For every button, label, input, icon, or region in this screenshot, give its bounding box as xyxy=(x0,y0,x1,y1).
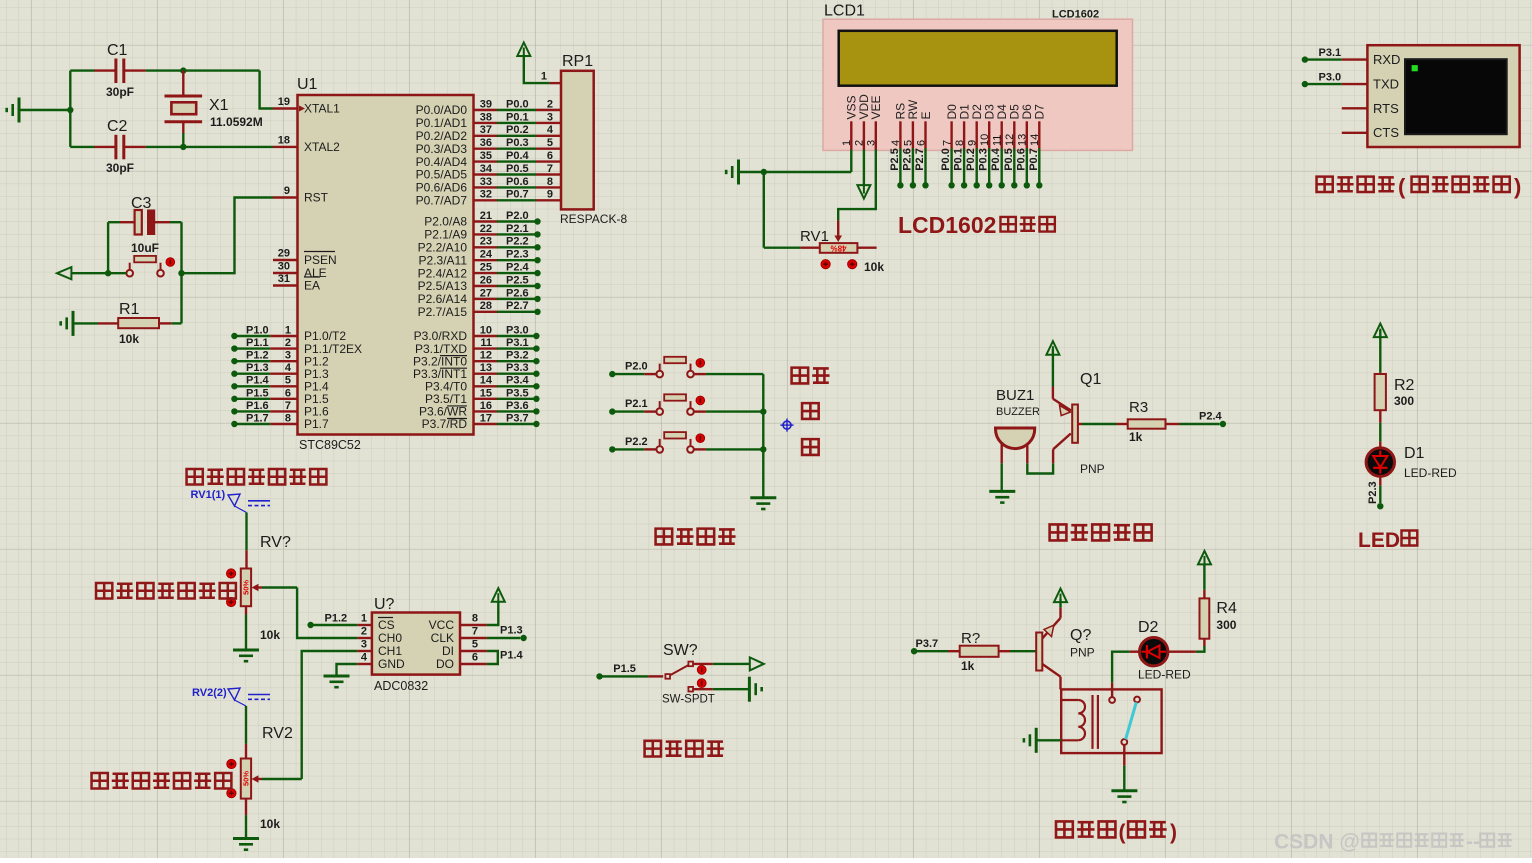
svg-text:1: 1 xyxy=(541,71,547,83)
svg-text:P1.2: P1.2 xyxy=(325,613,348,625)
svg-text:P2.7/A15: P2.7/A15 xyxy=(418,305,468,319)
wire Q? collector to relay xyxy=(1059,677,1061,690)
buzzer BUZ1 xyxy=(996,387,1041,449)
svg-text:P1.6: P1.6 xyxy=(246,400,269,412)
wire D1 to P2.3 xyxy=(1379,476,1381,503)
svg-text:P2.2: P2.2 xyxy=(506,236,529,248)
svg-text:24: 24 xyxy=(480,249,493,261)
svg-text:P0.6: P0.6 xyxy=(1015,148,1027,171)
U1 pin P3.2 (12) with net label xyxy=(413,350,540,369)
svg-text:P0.6: P0.6 xyxy=(506,176,529,188)
button P2.2 xyxy=(612,432,763,453)
svg-text:P2.3: P2.3 xyxy=(506,249,529,261)
ground (buzzer) xyxy=(989,491,1015,502)
svg-text:P1.0: P1.0 xyxy=(246,324,269,336)
svg-text:RV?: RV? xyxy=(260,534,291,551)
svg-text:7: 7 xyxy=(472,626,478,638)
U1 pin P2.6 (27) with net label xyxy=(418,287,541,306)
svg-text:35: 35 xyxy=(480,150,492,162)
svg-text:): ) xyxy=(1170,821,1177,844)
LCD1 pin 4 RS xyxy=(889,103,908,189)
svg-text:9: 9 xyxy=(284,185,290,197)
svg-text:P0.3: P0.3 xyxy=(978,148,990,171)
resistor R4 xyxy=(1200,598,1237,638)
node reset left xyxy=(105,270,111,276)
svg-text:P0.3/AD3: P0.3/AD3 xyxy=(416,142,468,156)
origin marker (blue) xyxy=(780,419,793,432)
LCD1 pin 3 VEE xyxy=(866,95,884,149)
svg-text:P2.7: P2.7 xyxy=(506,300,529,312)
svg-text:50%: 50% xyxy=(242,771,251,786)
svg-text:P2.7: P2.7 xyxy=(914,148,926,171)
U1 pin RST 9 xyxy=(273,185,329,205)
svg-text:DI: DI xyxy=(442,644,454,658)
svg-text:1: 1 xyxy=(285,324,291,336)
svg-text:U1: U1 xyxy=(297,76,318,93)
label jian xyxy=(802,439,819,455)
wire VSS to ground xyxy=(739,150,852,173)
svg-text:26: 26 xyxy=(480,274,492,286)
svg-text:2: 2 xyxy=(547,98,553,110)
svg-text:P3.7: P3.7 xyxy=(506,412,529,424)
svg-text:P3.6: P3.6 xyxy=(506,400,529,412)
svg-text:11: 11 xyxy=(480,337,492,349)
LCD1 display body xyxy=(823,3,1133,151)
svg-text:PSEN: PSEN xyxy=(304,253,337,267)
svg-text:36: 36 xyxy=(480,137,492,149)
U1 pin P3.7 (17) with net label xyxy=(422,412,540,431)
svg-text:P0.2/AD2: P0.2/AD2 xyxy=(416,129,468,143)
svg-text:P0.7/AD7: P0.7/AD7 xyxy=(416,194,468,208)
svg-text:P0.5: P0.5 xyxy=(506,163,529,175)
LCD1 pin 10 D3 xyxy=(978,104,997,189)
svg-text:P1.3: P1.3 xyxy=(246,362,269,374)
svg-text:RTS: RTS xyxy=(1373,101,1399,116)
node P2.2 xyxy=(609,436,648,453)
svg-text:27: 27 xyxy=(480,287,492,299)
U1 pin P2.0 (21) with net label xyxy=(424,210,540,229)
svg-text:10: 10 xyxy=(480,324,492,336)
LCD1 pin 11 D4 xyxy=(990,104,1009,189)
U? pin 5 DI xyxy=(442,639,487,659)
svg-text:C1: C1 xyxy=(107,42,128,59)
relay coil xyxy=(1061,700,1085,740)
node P2.0 xyxy=(609,361,648,378)
capacitor C2 xyxy=(70,118,145,175)
svg-text:P0.2: P0.2 xyxy=(965,148,977,171)
potentiometer RV1 xyxy=(764,172,885,274)
svg-text:P1.4: P1.4 xyxy=(246,375,270,387)
serial pin CTS stub xyxy=(1342,132,1368,134)
relay body xyxy=(1061,689,1161,753)
U1 pin P1.1 (2) with net label xyxy=(231,337,362,356)
svg-text:P3.5: P3.5 xyxy=(506,387,529,399)
wire R2 to D1 xyxy=(1379,410,1381,448)
svg-text:48%: 48% xyxy=(830,243,846,252)
relay contact terminals xyxy=(1109,697,1140,745)
serial pin RTS stub xyxy=(1342,107,1368,109)
ground (RV?) xyxy=(233,650,259,661)
switch toggle markers xyxy=(697,665,706,687)
svg-text:P1.5: P1.5 xyxy=(246,387,269,399)
resistor R? xyxy=(914,630,1036,673)
svg-text:P3.0: P3.0 xyxy=(1319,72,1342,84)
wire buttons common vertical xyxy=(762,374,764,498)
resistor R3 xyxy=(1078,399,1220,444)
svg-text:P0.5/AD5: P0.5/AD5 xyxy=(416,168,468,182)
LCD1 pin 2 VDD xyxy=(854,94,872,150)
svg-text:8: 8 xyxy=(285,412,291,424)
svg-text:(: ( xyxy=(1398,174,1406,199)
ground (crystal section) xyxy=(7,98,19,123)
svg-text:XTAL2: XTAL2 xyxy=(304,140,340,154)
power arrow (relay transistor) xyxy=(1054,589,1067,603)
wire relay NO contact to D2 branch xyxy=(1112,652,1140,697)
svg-text:P2.5/A13: P2.5/A13 xyxy=(418,279,468,293)
svg-text:P2.1: P2.1 xyxy=(506,223,529,235)
svg-text:300: 300 xyxy=(1394,394,1414,408)
U1 pin P1.5 (6) with net label xyxy=(231,387,329,406)
svg-text:6: 6 xyxy=(285,387,291,399)
resistor R1 xyxy=(73,301,182,346)
svg-text:CLK: CLK xyxy=(431,631,454,645)
svg-text:E: E xyxy=(919,111,933,119)
U1 pin P2.3 (24) with net label xyxy=(419,249,541,268)
svg-text:P0.4: P0.4 xyxy=(990,147,1002,171)
wire terminal to RV? xyxy=(245,513,247,569)
ground (R1) xyxy=(61,311,73,336)
svg-text:R?: R? xyxy=(961,630,980,647)
LCD1 pin 8 D1 xyxy=(953,104,972,189)
svg-text:P2.2: P2.2 xyxy=(625,436,648,448)
potentiometer RV? xyxy=(241,534,291,642)
svg-text:SW-SPDT: SW-SPDT xyxy=(662,694,715,706)
svg-text:15: 15 xyxy=(480,387,492,399)
svg-text:P2.5: P2.5 xyxy=(889,148,901,171)
label fujia jiujing xyxy=(96,583,236,598)
label danpianji zuixiao xitong xyxy=(187,469,327,484)
svg-text:11.0592M: 11.0592M xyxy=(210,115,263,129)
svg-text:9: 9 xyxy=(547,189,553,201)
svg-text:39: 39 xyxy=(480,98,492,110)
svg-text:D1: D1 xyxy=(1404,445,1425,462)
svg-text:10uF: 10uF xyxy=(131,241,159,255)
power arrow (ADC) xyxy=(492,588,505,602)
wire RV2 bottom to ground xyxy=(245,799,247,838)
ground (relay coil) xyxy=(1024,728,1061,753)
svg-text:7: 7 xyxy=(547,163,553,175)
node VSS junction xyxy=(761,169,767,175)
node P2.4 xyxy=(1199,411,1226,428)
power arrow (buzzer) xyxy=(1046,341,1059,355)
U1 pin P1.3 (4) with net label xyxy=(231,362,329,381)
svg-text:18: 18 xyxy=(278,134,290,146)
svg-text:P2.2/A10: P2.2/A10 xyxy=(418,241,468,255)
wire SW common to power arrow xyxy=(693,663,750,665)
svg-text:VCC: VCC xyxy=(429,618,455,632)
svg-text:LED: LED xyxy=(1358,529,1400,552)
U? pin 4 GND xyxy=(357,652,405,672)
svg-text:32: 32 xyxy=(480,189,492,201)
node P2.3 xyxy=(1367,481,1384,509)
serial module body xyxy=(1367,45,1519,147)
svg-text:6: 6 xyxy=(472,652,478,664)
resistor R2 xyxy=(1375,374,1415,410)
svg-text:DO: DO xyxy=(436,657,454,671)
svg-text:P3.2: P3.2 xyxy=(506,350,529,362)
svg-text:28: 28 xyxy=(480,300,492,312)
svg-text:U?: U? xyxy=(374,596,395,613)
U1 pin XTAL2 18 xyxy=(273,134,340,154)
svg-text:P1.3: P1.3 xyxy=(500,625,523,637)
RV1 adjust buttons xyxy=(821,260,857,269)
adc U? ADC0832 body xyxy=(372,596,460,693)
wire C2 to XTAL2 xyxy=(146,146,273,148)
U1 pin P0.2 (37) wire to RP1 xyxy=(416,124,561,143)
power arrow (R4) xyxy=(1198,551,1211,565)
ground (relay contact) xyxy=(1111,791,1137,802)
node P1.5 xyxy=(596,663,636,680)
potentiometer RV2 xyxy=(241,725,293,831)
RV? wiper wire to CH0 xyxy=(252,584,358,638)
U? pin 1 CS xyxy=(357,613,394,633)
RP1 pin 1 wire and power xyxy=(524,57,561,83)
ground right (SW) xyxy=(749,677,761,702)
power arrow (RP1) xyxy=(517,43,530,57)
svg-text:P1.4: P1.4 xyxy=(500,650,524,662)
transistor Q? PNP xyxy=(1036,618,1094,677)
ground (LCD VSS) xyxy=(726,160,738,185)
svg-text:P0.5: P0.5 xyxy=(1003,148,1015,171)
wire C1 to XTAL1 xyxy=(146,71,273,109)
wire C3 right down xyxy=(180,222,182,273)
wire ground to junction xyxy=(19,109,70,111)
svg-text:P0.7: P0.7 xyxy=(1028,148,1040,171)
svg-text:P0.6/AD6: P0.6/AD6 xyxy=(416,181,468,195)
svg-text:BUZZER: BUZZER xyxy=(996,406,1040,418)
svg-text:4: 4 xyxy=(361,652,368,664)
node button common 2 xyxy=(760,446,766,452)
svg-text:CH0: CH0 xyxy=(378,631,402,645)
svg-text:R2: R2 xyxy=(1394,377,1415,394)
wire C3 left down xyxy=(107,222,109,273)
svg-text:P3.7: P3.7 xyxy=(916,638,939,650)
svg-text:1k: 1k xyxy=(1129,430,1143,444)
svg-text:22: 22 xyxy=(480,223,492,235)
svg-text:ADC0832: ADC0832 xyxy=(374,679,428,693)
LCD1 pin 12 D5 xyxy=(1003,104,1022,189)
svg-text:LCD1602: LCD1602 xyxy=(1052,9,1099,21)
svg-text:13: 13 xyxy=(480,362,492,374)
U1 pin PSEN 29 xyxy=(273,248,337,268)
U1 pin P0.4 (35) wire to RP1 xyxy=(416,150,561,169)
terminal RV1(1) xyxy=(191,489,271,513)
svg-text:P3.0: P3.0 xyxy=(506,324,529,336)
label jia xyxy=(802,403,819,419)
power down arrow (VDD) xyxy=(857,185,870,199)
power arrow right (SW) xyxy=(745,657,764,670)
svg-text:): ) xyxy=(1514,174,1521,199)
svg-text:19: 19 xyxy=(278,96,290,108)
microcontroller U1 STC89C52 xyxy=(297,76,474,452)
U1 pin P2.4 (25) with net label xyxy=(418,262,541,281)
svg-text:1k: 1k xyxy=(961,659,975,673)
relay lever (cyan) xyxy=(1126,702,1137,739)
svg-text:P2.5: P2.5 xyxy=(506,274,529,286)
svg-text:3: 3 xyxy=(547,111,553,123)
svg-text:25: 25 xyxy=(480,262,492,274)
svg-text:2: 2 xyxy=(361,626,367,638)
svg-text:LCD1: LCD1 xyxy=(824,3,865,20)
terminal arrow left (reset) xyxy=(57,267,71,279)
svg-text:P2.0: P2.0 xyxy=(506,210,529,222)
label zhujia jiujing xyxy=(92,773,232,788)
ground (RV2) xyxy=(233,839,259,850)
label shezhi xyxy=(792,368,830,384)
LCD1 pin 9 D2 xyxy=(965,104,984,189)
button P2.1 xyxy=(612,394,763,415)
LCD1 pin 13 D6 xyxy=(1015,104,1034,189)
U1 pin P3.3 (13) with net label xyxy=(413,362,540,381)
svg-text:D7: D7 xyxy=(1033,104,1047,120)
svg-text:5: 5 xyxy=(285,375,291,387)
svg-text:17: 17 xyxy=(480,412,492,424)
svg-text:TXD: TXD xyxy=(1373,76,1399,91)
U1 pin P3.0 (10) with net label xyxy=(414,324,540,343)
U1 pin P3.4 (14) with net label xyxy=(425,375,540,394)
U1 pin P0.1 (38) wire to RP1 xyxy=(416,111,561,130)
svg-text:CH1: CH1 xyxy=(378,644,402,658)
serial pin TXD wire P3.0 xyxy=(1302,72,1368,88)
svg-text:38: 38 xyxy=(480,111,492,123)
U1 pin P3.6 (16) with net label xyxy=(419,400,540,419)
svg-text:P1.5: P1.5 xyxy=(613,663,636,675)
LCD1 pin 14 D7 xyxy=(1028,104,1047,189)
svg-text:P0.1/AD1: P0.1/AD1 xyxy=(416,116,468,130)
svg-text:14: 14 xyxy=(480,375,493,387)
svg-text:D2: D2 xyxy=(1138,619,1159,636)
serial pin RXD wire P3.1 xyxy=(1302,47,1368,63)
svg-text:P1.1: P1.1 xyxy=(246,337,269,349)
U? pin 2 CH0 xyxy=(357,626,402,646)
transistor Q1 PNP xyxy=(1053,371,1105,476)
svg-text:3: 3 xyxy=(285,350,291,362)
wire GND pin to ground xyxy=(337,664,358,676)
svg-text:23: 23 xyxy=(480,236,492,248)
svg-text:P3.3: P3.3 xyxy=(506,362,529,374)
svg-text:3: 3 xyxy=(361,639,367,651)
svg-text:10k: 10k xyxy=(260,817,280,831)
svg-text:VEE: VEE xyxy=(869,95,883,119)
svg-text:16: 16 xyxy=(480,400,492,412)
U1 pin P2.1 (22) with net label xyxy=(424,223,540,242)
svg-text:P3.1: P3.1 xyxy=(506,337,529,349)
LCD1 pin 1 VSS xyxy=(841,95,859,149)
svg-text:21: 21 xyxy=(480,210,492,222)
svg-text:STC89C52: STC89C52 xyxy=(299,438,361,452)
power arrow (LED) xyxy=(1374,324,1387,338)
node reset right xyxy=(178,270,184,276)
svg-text:50%: 50% xyxy=(242,580,251,595)
svg-text:C3: C3 xyxy=(131,195,152,212)
U1 pin P0.6 (33) wire to RP1 xyxy=(416,176,561,195)
svg-text:Q1: Q1 xyxy=(1080,371,1101,388)
label fengmingqi baojing xyxy=(1050,524,1152,540)
svg-text:CTS: CTS xyxy=(1373,125,1399,140)
svg-text:BUZ1: BUZ1 xyxy=(996,387,1034,404)
wire Q? emitter to power xyxy=(1059,599,1061,618)
svg-text:R4: R4 xyxy=(1216,600,1237,617)
svg-text:P2.4: P2.4 xyxy=(1199,411,1223,423)
wire R4 to power xyxy=(1203,564,1205,598)
U1 pin XTAL1 19 xyxy=(273,96,340,116)
crystal X1 xyxy=(165,71,263,147)
svg-text:LED-RED: LED-RED xyxy=(1404,466,1457,480)
label hongwai duiguan xyxy=(645,741,724,757)
diode D2 LED-RED xyxy=(1138,619,1191,682)
svg-text:8: 8 xyxy=(472,613,478,625)
svg-text:P1.7: P1.7 xyxy=(304,417,329,431)
svg-text:2: 2 xyxy=(285,337,291,349)
svg-text:P0.7: P0.7 xyxy=(506,189,529,201)
svg-text:7: 7 xyxy=(285,400,291,412)
svg-text:10k: 10k xyxy=(119,332,139,346)
svg-text:XTAL1: XTAL1 xyxy=(304,102,340,116)
capacitor C3 xyxy=(108,195,181,255)
svg-text:30pF: 30pF xyxy=(106,161,134,175)
svg-text:PNP: PNP xyxy=(1080,462,1105,476)
svg-text:Q?: Q? xyxy=(1070,627,1091,644)
U1 pin P1.6 (7) with net label xyxy=(231,400,329,419)
relay core bars xyxy=(1093,695,1098,749)
svg-text:P0.3: P0.3 xyxy=(506,137,529,149)
terminal RV2(2) xyxy=(192,687,270,706)
svg-text:P2.6/A14: P2.6/A14 xyxy=(418,292,468,306)
wire D2 to R4 xyxy=(1168,639,1205,652)
svg-text:P0.2: P0.2 xyxy=(506,124,529,136)
svg-text:5: 5 xyxy=(547,137,553,149)
svg-text:P0.1: P0.1 xyxy=(953,148,965,171)
svg-text:RV1(1): RV1(1) xyxy=(191,489,226,501)
U1 pin P0.7 (32) wire to RP1 xyxy=(416,189,561,208)
U1 pin ALE 30 xyxy=(273,261,327,281)
U1 pin P0.3 (36) wire to RP1 xyxy=(416,137,561,156)
svg-text:300: 300 xyxy=(1216,618,1236,632)
resistor pack RP1 body xyxy=(560,53,627,226)
svg-text:--: -- xyxy=(1466,831,1480,854)
U1 pin P1.2 (3) with net label xyxy=(231,350,329,369)
svg-text:(: ( xyxy=(1119,821,1126,844)
svg-text:P2.6: P2.6 xyxy=(506,287,529,299)
svg-text:R3: R3 xyxy=(1129,399,1148,416)
node P3.7 xyxy=(911,638,938,654)
wire VDD to power-down arrow xyxy=(863,150,865,185)
wire relay common to ground xyxy=(1123,745,1125,790)
svg-text:LCD1602: LCD1602 xyxy=(898,212,996,238)
svg-text:5: 5 xyxy=(472,639,478,651)
buzzer left pin to ground xyxy=(1001,442,1003,491)
reset button xyxy=(126,256,174,277)
node crystal top xyxy=(180,67,186,73)
svg-text:P1.7: P1.7 xyxy=(246,412,269,424)
svg-text:30pF: 30pF xyxy=(106,85,134,99)
svg-text:P2.1/A9: P2.1/A9 xyxy=(424,228,467,242)
svg-text:34: 34 xyxy=(480,163,493,175)
U1 pin P3.1 (11) with net label xyxy=(415,337,540,356)
wire terminal to RV2 xyxy=(245,706,247,759)
LCD1 pin 5 RW xyxy=(901,99,920,188)
svg-text:RV2: RV2 xyxy=(262,725,293,742)
